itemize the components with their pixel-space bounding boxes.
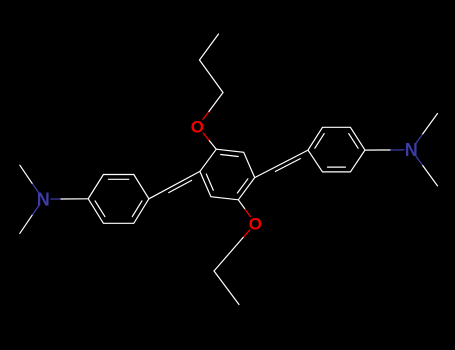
bond N(left)-CH3 lower blue half — [32, 206, 39, 216]
vinyl bridge left CH=CH main line — [149, 171, 200, 198]
benzene ring central (2,5-dialkoxyphenylene) — [200, 149, 255, 200]
bond O(top)-ring red half — [203, 133, 209, 141]
bond N(left)-ring white half — [61, 198, 88, 200]
bond N(left)-CH3 upper white half — [20, 165, 32, 183]
svg-text:N: N — [37, 190, 50, 210]
svg-text:O: O — [249, 215, 262, 234]
double bond inner line: central ring top edge — [221, 155, 239, 157]
double bond inner line: right ring upper-left edge — [315, 134, 324, 149]
svg-text:N: N — [405, 140, 418, 160]
double bond inner line: left ring lower-left edge — [95, 201, 105, 217]
bond N(right)-CH3 upper blue half — [416, 134, 423, 143]
double bond inner line: right ring upper-right edge — [349, 134, 358, 149]
bond O(top)-CH2 white half — [209, 93, 223, 112]
benzene ring left (aminophenyl C6H4) — [88, 175, 149, 224]
double bond inner line: central ring left edge — [206, 174, 213, 190]
bond N(right)-CH3 lower blue half — [416, 156, 423, 165]
bond O(bottom)-CH2 white half — [214, 237, 243, 271]
vinyl bridge right C=C second line — [275, 159, 300, 172]
benzene ring right (aminophenyl C6H4) — [308, 127, 365, 172]
bond N(right)-ring blue half — [390, 149, 404, 151]
bond O(top)-CH2 red half — [203, 112, 209, 120]
vinyl bridge right CH=CH main line — [255, 150, 308, 178]
double bond inner line: central ring lower-right edge — [237, 179, 248, 193]
bond O(bottom)-ring red half — [245, 209, 251, 217]
bond CH2-CH3 bottom chain — [214, 271, 239, 305]
bond O(top)-ring white half — [209, 141, 216, 150]
vinyl bridge left C=C second line — [169, 180, 192, 192]
double bond inner line: left ring lower-right edge — [132, 201, 142, 217]
bond N(left)-ring blue half — [51, 198, 61, 200]
bond N(left)-CH3 lower white half — [20, 215, 32, 233]
double bond inner line: right ring bottom edge — [328, 166, 346, 168]
bond O(bottom)-CH2 red half — [243, 230, 250, 238]
bond N(right)-CH3 lower white half — [423, 166, 438, 186]
svg-text:O: O — [191, 117, 204, 136]
bond N(right)-CH3 upper white half — [423, 114, 438, 134]
bond N(right)-ring white half — [365, 149, 390, 151]
bond CH2-CH2 top chain — [200, 60, 224, 93]
double bond inner line: left ring top edge — [108, 178, 128, 180]
bond O(bottom)-ring white half — [238, 200, 244, 209]
bond N(left)-CH3 upper blue half — [32, 183, 39, 193]
bond CH2-CH3 top chain — [200, 34, 219, 60]
